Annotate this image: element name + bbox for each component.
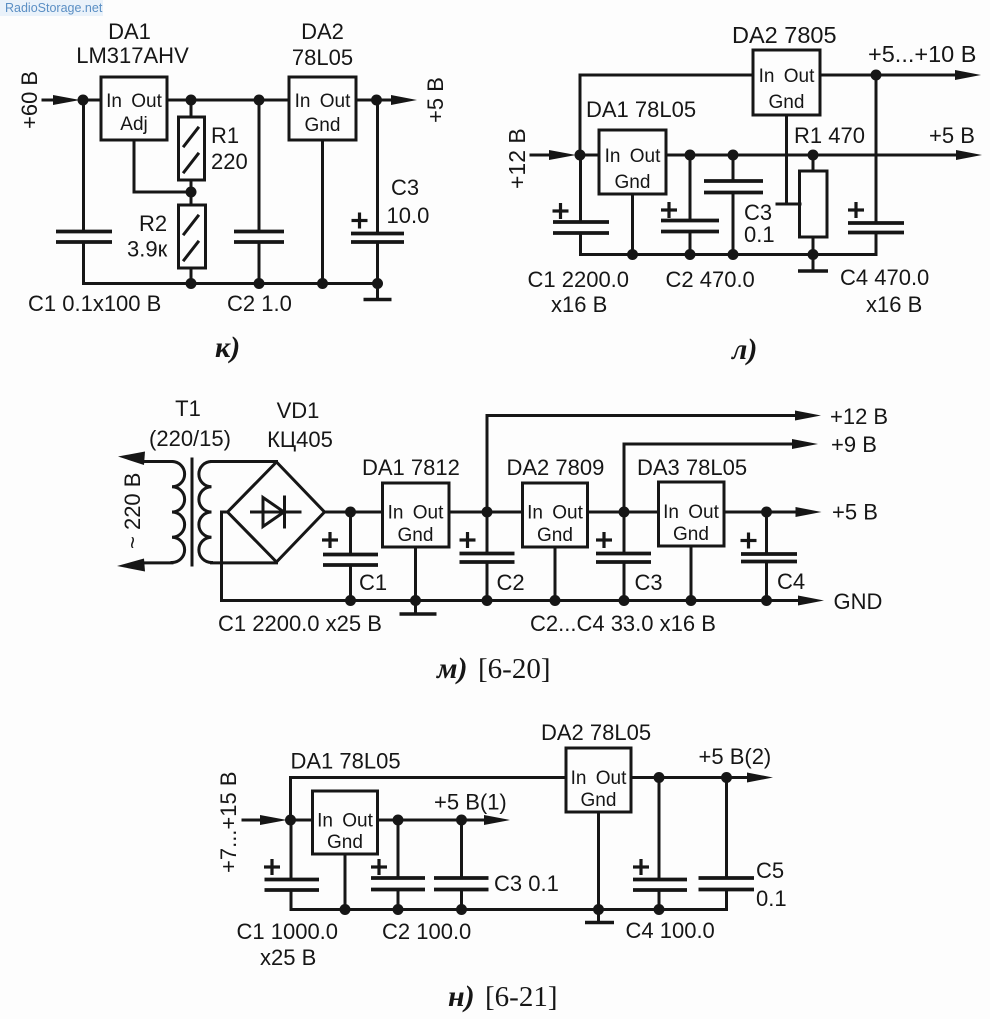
svg-text:к): к) xyxy=(215,331,240,364)
wire C1 top xyxy=(290,820,293,880)
output GND label xyxy=(834,589,883,614)
output +5 В label xyxy=(929,123,975,148)
capacitor C5 xyxy=(699,878,755,890)
wire C3 bottom xyxy=(460,890,463,910)
ground xyxy=(364,284,392,300)
watermark RadioStorage.net xyxy=(0,0,103,16)
wire +12 В riser xyxy=(487,416,796,513)
svg-text:LM317AHV: LM317AHV xyxy=(76,43,189,68)
capacitor C1 polarity + xyxy=(553,203,569,219)
svg-text:+7...+15 В: +7...+15 В xyxy=(216,771,241,873)
wire +9 В riser xyxy=(624,444,793,512)
capacitor C2 xyxy=(661,221,719,232)
wire DA1 out to +5 В(1) arrow xyxy=(378,819,486,822)
output +9 В label xyxy=(831,432,877,457)
svg-text:C1 2200.0: C1 2200.0 xyxy=(528,267,630,292)
diode symbol inside bridge xyxy=(252,497,301,527)
node C3 top junction xyxy=(728,150,739,161)
node R1 top junction xyxy=(808,150,819,161)
wire DA2 Gnd pin xyxy=(321,140,324,284)
svg-text:R1: R1 xyxy=(211,123,239,148)
svg-text:In Out: In Out xyxy=(527,503,583,524)
wire C1 bottom xyxy=(290,890,293,910)
ground xyxy=(400,601,437,615)
svg-text:DA2 78L05: DA2 78L05 xyxy=(541,720,651,745)
node rail C1 xyxy=(345,595,356,606)
transformer T1 core xyxy=(191,459,194,565)
wire C1 top xyxy=(349,512,352,555)
wire secondary bottom to bridge xyxy=(212,561,277,564)
diode bridge VD1 xyxy=(228,462,325,562)
op-amp DA2 78L05 box xyxy=(289,77,356,140)
capacitor C3 polarity + xyxy=(596,532,612,548)
node +9 riser junction xyxy=(619,507,630,518)
svg-text:Gnd: Gnd xyxy=(673,524,709,545)
svg-text:C4 470.0: C4 470.0 xyxy=(840,265,929,290)
wire C4 top xyxy=(765,512,768,554)
svg-text:3.9к: 3.9к xyxy=(127,237,168,262)
output arrow +12 В xyxy=(795,411,821,421)
label C3 10.0 xyxy=(387,175,430,228)
wire C2 bottom xyxy=(397,890,400,910)
node rail C3 xyxy=(728,249,739,260)
svg-text:C4: C4 xyxy=(777,569,805,594)
svg-text:C3: C3 xyxy=(391,175,419,200)
node rail DA3 Gnd xyxy=(686,595,697,606)
value label C2 1.0 xyxy=(227,291,292,316)
wire DA3 out to +5 В arrow xyxy=(724,511,796,514)
output +5 В label xyxy=(832,500,878,525)
wire C5 bottom xyxy=(725,890,728,910)
input +7...+15 В label xyxy=(216,771,241,873)
node rail C4 xyxy=(761,595,772,606)
value label C2 470.0 xyxy=(666,267,755,292)
svg-text:10.0: 10.0 xyxy=(387,203,430,228)
capacitor C1 xyxy=(553,222,609,233)
svg-text:Gnd: Gnd xyxy=(305,115,341,136)
label DA1 7812 xyxy=(362,455,460,480)
node R1 top junction xyxy=(186,95,197,106)
capacitor C3 xyxy=(351,234,404,243)
label DA2 78L05 xyxy=(541,720,651,745)
svg-text:78L05: 78L05 xyxy=(292,45,353,70)
label DA1 78L05 xyxy=(291,749,401,774)
wire C4 top xyxy=(658,778,661,880)
node C2 top junction xyxy=(254,95,265,106)
capacitor C1 xyxy=(56,232,112,243)
svg-text:Gnd: Gnd xyxy=(537,525,573,546)
label DA2 7805 xyxy=(732,22,837,48)
wire C3 bottom xyxy=(623,562,626,601)
wire input down to C1 xyxy=(82,100,85,231)
svg-text:In Out: In Out xyxy=(295,91,351,112)
label C3 xyxy=(635,570,663,595)
value label C1 2200.0 x25 В xyxy=(218,611,382,636)
node C4 top junction xyxy=(654,772,665,783)
svg-text:[6-21]: [6-21] xyxy=(485,981,557,1013)
svg-text:VD1: VD1 xyxy=(277,398,320,423)
label R1 470 xyxy=(794,123,865,148)
svg-text:In Out: In Out xyxy=(759,66,815,87)
value label C2...C4 33.0 x16 В xyxy=(530,611,716,636)
svg-text:220: 220 xyxy=(211,149,248,174)
svg-text:R2: R2 xyxy=(139,211,167,236)
wire C3 top xyxy=(376,100,379,234)
node rail C2 xyxy=(685,249,696,260)
capacitor C1 polarity + xyxy=(264,859,280,875)
value label C1 1000.0 x25 В xyxy=(237,919,339,970)
output arrow +5 В xyxy=(796,507,822,517)
wire C3 bottom xyxy=(732,193,735,255)
svg-text:DA1 78L05: DA1 78L05 xyxy=(291,749,401,774)
label DA3 78L05 xyxy=(637,455,747,480)
svg-text:DA1: DA1 xyxy=(108,19,151,44)
wire Adj pin xyxy=(134,140,191,192)
wire bottom rail xyxy=(291,908,727,911)
svg-text:C4 100.0: C4 100.0 xyxy=(626,918,715,943)
svg-text:RadioStorage.net: RadioStorage.net xyxy=(5,1,103,15)
node rail Gnd xyxy=(317,278,328,289)
svg-text:x16 В: x16 В xyxy=(551,292,607,317)
node rail C2 xyxy=(482,595,493,606)
label C2 xyxy=(497,570,525,595)
node top output junction xyxy=(871,70,882,81)
value label C3 0.1 xyxy=(494,871,559,896)
label R1 220 xyxy=(211,123,248,174)
svg-text:C3: C3 xyxy=(635,570,663,595)
label C1 xyxy=(359,570,387,595)
svg-text:DA1 7812: DA1 7812 xyxy=(362,455,460,480)
svg-text:In Out: In Out xyxy=(317,811,373,832)
input arrow xyxy=(43,95,80,105)
node rail DA2 Gnd xyxy=(593,904,604,915)
node input junction xyxy=(78,95,89,106)
output +5 В(2) label xyxy=(699,744,772,769)
output arrow +9 В xyxy=(792,439,818,449)
svg-text:Gnd: Gnd xyxy=(327,832,363,853)
svg-text:C2 470.0: C2 470.0 xyxy=(666,267,755,292)
svg-text:н): н) xyxy=(448,980,475,1013)
wire C2 top xyxy=(258,100,261,231)
wire DA2 out to +5 В(2) arrow xyxy=(631,776,748,779)
op-amp DA1 78L05 box xyxy=(313,791,378,854)
node input junction xyxy=(575,150,586,161)
capacitor C4 polarity + xyxy=(848,202,864,218)
wire DA2 out to DA3 xyxy=(588,511,659,514)
wire DA2 Gnd pin xyxy=(554,547,557,601)
svg-text:DA1 78L05: DA1 78L05 xyxy=(586,97,696,122)
transformer T1 secondary xyxy=(199,462,212,563)
label C4 xyxy=(777,569,805,594)
node R1/R2 junction xyxy=(186,187,197,198)
svg-text:C2 1.0: C2 1.0 xyxy=(227,291,292,316)
node C5 top junction xyxy=(721,772,732,783)
svg-text:C2 100.0: C2 100.0 xyxy=(382,919,471,944)
svg-text:Gnd: Gnd xyxy=(769,92,805,113)
svg-text:R1 470: R1 470 xyxy=(794,123,865,148)
wire input to DA1 xyxy=(580,154,599,157)
svg-text:0.1: 0.1 xyxy=(756,886,787,911)
wire DA1 out to DA2 xyxy=(449,511,523,514)
label R2 3.9к xyxy=(127,211,168,262)
ground xyxy=(798,255,828,272)
input arrow top xyxy=(118,452,172,466)
input +60 В label xyxy=(17,71,42,129)
wire C2 top xyxy=(486,512,489,554)
value label C4 470.0 x16 В xyxy=(840,265,929,317)
wire riser to top rail xyxy=(291,778,567,821)
wire C1 to bottom rail xyxy=(82,242,85,284)
section label л) xyxy=(730,333,757,366)
node rail R2 xyxy=(186,278,197,289)
svg-text:+5 В(1): +5 В(1) xyxy=(434,790,507,815)
svg-text:C2: C2 xyxy=(497,570,525,595)
svg-text:DA2 7805: DA2 7805 xyxy=(732,22,837,48)
wire C3 bottom xyxy=(376,242,379,284)
wire C4 bottom xyxy=(765,562,768,601)
label DA1 78L05 xyxy=(586,97,696,122)
svg-text:In Out: In Out xyxy=(605,146,661,167)
node rail Gnd xyxy=(627,249,638,260)
svg-text:x16 В: x16 В xyxy=(866,292,922,317)
svg-text:+12 В: +12 В xyxy=(830,404,888,429)
node C3 top junction xyxy=(456,815,467,826)
resistor R2 3.9к xyxy=(179,205,206,268)
op-amp DA3 78L05 box xyxy=(659,482,725,546)
svg-text:Adj: Adj xyxy=(120,114,147,135)
value label C1 0.1x100 В xyxy=(28,291,161,316)
wire bridge negative corner down xyxy=(222,512,228,601)
svg-text:Gnd: Gnd xyxy=(581,790,617,811)
input ~220 В label xyxy=(120,473,145,549)
label DA1 xyxy=(76,19,189,68)
resistor R1 470 xyxy=(800,171,828,237)
node rail DA1 Gnd xyxy=(410,595,421,606)
wire GND rail xyxy=(222,599,800,602)
wire C4 bottom xyxy=(658,890,661,910)
svg-text:C1 2200.0 x25 В: C1 2200.0 x25 В xyxy=(218,611,382,636)
output arrow +5 В(2) xyxy=(747,773,773,783)
wire junction to R2 xyxy=(190,192,193,205)
svg-text:In Out: In Out xyxy=(106,91,162,112)
wire DA2 Gnd pin xyxy=(597,812,600,910)
svg-text:+12 В: +12 В xyxy=(504,128,530,189)
wire DA1 Gnd pin xyxy=(414,547,417,601)
value label C1 2200.0 x16 В xyxy=(528,267,630,317)
wire R1 bottom xyxy=(812,237,815,255)
wire bottom rail xyxy=(84,282,378,285)
wire DA2 out to +5...+10 В arrow xyxy=(820,74,956,77)
svg-text:In Out: In Out xyxy=(388,503,444,524)
wire DA1 out to DA2 xyxy=(167,99,289,102)
svg-text:C1: C1 xyxy=(359,570,387,595)
svg-text:T1: T1 xyxy=(175,396,201,421)
svg-text:0.1: 0.1 xyxy=(744,222,775,247)
wire R2 to bottom rail xyxy=(190,268,193,284)
capacitor C2 xyxy=(371,878,425,890)
wire C2 bottom xyxy=(486,562,489,601)
wire C3 top xyxy=(460,820,463,878)
op-amp DA2 7805 box xyxy=(753,50,820,115)
node rail C4 xyxy=(654,904,665,915)
wire R1 bottom xyxy=(190,180,193,192)
wire C2 top xyxy=(689,155,692,221)
ground xyxy=(585,910,614,923)
svg-text:+5 В: +5 В xyxy=(929,123,975,148)
wire C3 top xyxy=(732,155,735,181)
transformer T1 primary xyxy=(172,462,185,563)
svg-text:+60 В: +60 В xyxy=(17,71,42,129)
wire bridge positive to DA1 xyxy=(325,511,383,514)
wire DA1 Gnd pin xyxy=(631,194,634,255)
wire C4 riser xyxy=(875,75,878,223)
svg-text:Gnd: Gnd xyxy=(398,525,434,546)
node C2 top junction xyxy=(393,815,404,826)
svg-text:(220/15): (220/15) xyxy=(149,426,231,451)
capacitor C1 xyxy=(265,880,320,891)
output arrow +5 В xyxy=(956,150,982,160)
node rail C3 xyxy=(372,278,383,289)
wire riser to top rail xyxy=(580,75,753,155)
input arrow xyxy=(243,815,287,825)
node rail C2 xyxy=(393,904,404,915)
wire to R1 xyxy=(190,100,193,117)
capacitor C3 xyxy=(434,878,489,890)
op-amp DA2 7809 box xyxy=(523,483,588,547)
capacitor C2 polarity + xyxy=(460,532,476,548)
svg-text:м): м) xyxy=(435,652,468,685)
capacitor C1 polarity + xyxy=(322,532,338,548)
output arrow +5 В(1) xyxy=(484,815,510,825)
svg-text:DA2 7809: DA2 7809 xyxy=(507,455,605,480)
wire DA1 out to +5 В arrow xyxy=(666,154,957,157)
output arrow +5 В xyxy=(391,95,417,105)
node C4 top junction xyxy=(761,507,772,518)
node output junction xyxy=(371,95,382,106)
wire C1 top xyxy=(579,155,582,222)
capacitor C4 xyxy=(741,554,797,562)
wire input to DA1 xyxy=(83,99,101,102)
label DA2 78L05 xyxy=(292,19,353,70)
svg-text:+9 В: +9 В xyxy=(831,432,877,457)
svg-text:DA2: DA2 xyxy=(301,19,344,44)
wire C2 top xyxy=(397,820,400,878)
svg-text:+5 В(2): +5 В(2) xyxy=(699,744,772,769)
node rail C3 xyxy=(619,595,630,606)
output +12 В label xyxy=(830,404,888,429)
wire C1 bottom xyxy=(349,565,352,601)
svg-text:+5 В: +5 В xyxy=(832,500,878,525)
svg-text:~ 220 В: ~ 220 В xyxy=(120,473,145,549)
wire C2 bottom xyxy=(689,232,692,255)
output arrow GND xyxy=(798,596,824,606)
op-amp DA1 78L05 box xyxy=(599,130,666,194)
svg-text:+5...+10 В: +5...+10 В xyxy=(868,41,976,67)
node rail DA2 Gnd xyxy=(550,595,561,606)
capacitor C2 polarity + xyxy=(661,202,677,218)
input arrow xyxy=(531,150,576,160)
wire DA2 Gnd pin xyxy=(777,115,800,204)
output +5...+10 В label xyxy=(868,41,976,67)
capacitor C4 xyxy=(633,880,687,891)
section label м) [6-20] xyxy=(435,652,550,685)
label DA2 7809 xyxy=(507,455,605,480)
svg-text:C1 1000.0: C1 1000.0 xyxy=(237,919,339,944)
output +5 В label xyxy=(423,77,448,123)
capacitor C4 polarity + xyxy=(741,533,757,549)
svg-text:[6-20]: [6-20] xyxy=(478,653,550,685)
label T1 (220/15) xyxy=(149,396,231,451)
node rail DA1 Gnd xyxy=(340,904,351,915)
svg-text:КЦ405: КЦ405 xyxy=(267,427,333,452)
node C1 top junction xyxy=(345,507,356,518)
value label C2 100.0 xyxy=(382,919,471,944)
wire C2 bottom xyxy=(258,242,261,284)
wire DA2 out xyxy=(356,99,395,102)
input arrow bottom xyxy=(117,559,172,572)
node +12 riser junction xyxy=(482,507,493,518)
wire R1 top xyxy=(812,155,815,171)
svg-text:C3 0.1: C3 0.1 xyxy=(494,871,559,896)
svg-text:DA3 78L05: DA3 78L05 xyxy=(637,455,747,480)
capacitor C3 xyxy=(704,181,763,193)
op-amp DA1 LM317AHV box xyxy=(101,77,167,140)
capacitor C4 polarity + xyxy=(633,859,649,875)
capacitor C2 xyxy=(234,232,284,243)
wire secondary top to bridge xyxy=(212,460,277,463)
capacitor C3 xyxy=(596,554,651,563)
wire C4 bottom xyxy=(875,233,878,255)
svg-text:л): л) xyxy=(730,333,757,366)
node input junction xyxy=(285,815,296,826)
svg-text:C1 0.1x100 В: C1 0.1x100 В xyxy=(28,291,161,316)
op-amp DA2 78L05 box xyxy=(566,748,631,812)
section label н) [6-21] xyxy=(448,980,557,1013)
capacitor C2 polarity + xyxy=(371,859,387,875)
svg-text:In Out: In Out xyxy=(663,502,719,523)
node C2 top junction xyxy=(685,150,696,161)
node rail R1 junction xyxy=(808,249,819,260)
value label C5 0.1 xyxy=(756,858,787,911)
wire DA1 Gnd pin xyxy=(344,854,347,910)
svg-text:C5: C5 xyxy=(756,858,784,883)
svg-text:C2...C4 33.0 x16 В: C2...C4 33.0 x16 В xyxy=(530,611,716,636)
wire C1 bottom xyxy=(579,233,582,255)
wire DA3 Gnd pin xyxy=(690,546,693,601)
output arrow +5...+10 В xyxy=(955,70,981,80)
capacitor C4 xyxy=(848,223,904,233)
svg-text:GND: GND xyxy=(834,589,883,614)
wire C3 top xyxy=(623,512,626,554)
wire bottom rail xyxy=(581,253,877,256)
svg-text:In Out: In Out xyxy=(571,768,627,789)
capacitor C3 polarity + xyxy=(352,213,368,229)
op-amp DA1 7812 box xyxy=(383,483,450,547)
svg-text:Gnd: Gnd xyxy=(615,172,651,193)
capacitor C2 xyxy=(460,554,515,563)
resistor R1 220 xyxy=(179,117,205,180)
node rail C3 xyxy=(456,904,467,915)
section label к) xyxy=(215,331,240,364)
svg-text:+5 В: +5 В xyxy=(423,77,448,123)
wire input to DA1 xyxy=(291,819,313,822)
capacitor C1 xyxy=(323,555,378,566)
svg-text:x25 В: x25 В xyxy=(260,945,316,970)
wire C5 top xyxy=(725,778,728,879)
input +12 В label xyxy=(504,128,530,189)
label C3 0.1 xyxy=(744,200,775,247)
value label C4 100.0 xyxy=(626,918,715,943)
